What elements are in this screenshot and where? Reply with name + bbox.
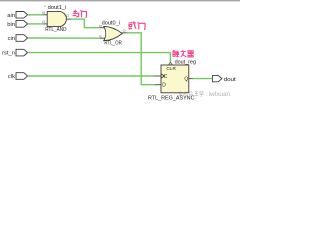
pin stub OR I1 [100, 37, 106, 39]
wire cin to OR I1 [28, 37, 100, 39]
wire rst_n to FF CLR [28, 53, 171, 63]
output port dout [213, 75, 237, 82]
svg-text:RTL_AND: RTL_AND [45, 27, 66, 33]
svg-text:D: D [162, 83, 166, 89]
svg-text:I1: I1 [42, 20, 45, 24]
pin stub FF D [155, 84, 161, 86]
pin stub OR I0 [100, 27, 105, 29]
svg-text:Q: Q [184, 76, 188, 82]
wire OR output to FF D [127, 33, 155, 85]
svg-text:I0: I0 [42, 11, 45, 15]
and-gate dout1_i RTL_AND [42, 5, 69, 33]
input port rst_n [2, 49, 27, 56]
pin marker FF CLR triangle [169, 62, 173, 65]
svg-text:RTL_OR: RTL_OR [104, 41, 121, 47]
svg-text:I0: I0 [99, 24, 102, 28]
svg-text:I1: I1 [99, 35, 102, 39]
svg-text:ain: ain [7, 13, 15, 19]
annotation OR gate (Chinese: huo men) [129, 22, 145, 30]
svg-text:rst_n: rst_n [2, 51, 15, 57]
wire FF Q to dout [193, 78, 213, 80]
top border shading [0, 0, 240, 2]
svg-text:O: O [123, 29, 126, 33]
svg-text:dout_reg: dout_reg [175, 60, 197, 66]
pin stub AND O [66, 18, 71, 20]
svg-text:dout0_i: dout0_i [102, 21, 120, 27]
svg-text:clk: clk [8, 74, 15, 80]
svg-text:: iwlxuan: : iwlxuan [205, 91, 230, 98]
pin stub OR O [122, 32, 127, 34]
svg-text:bin: bin [7, 22, 15, 28]
wire AND output to OR I0 [71, 19, 100, 28]
wire ain to AND I0 [28, 14, 44, 16]
flip-flop dout_reg RTL_REG_ASYNC [148, 60, 196, 102]
svg-text:CLR: CLR [166, 66, 176, 72]
annotation AND gate (Chinese: yu men) [73, 10, 87, 17]
svg-text:C: C [164, 74, 168, 80]
input port ain [7, 12, 27, 19]
svg-text:RTL_REG_ASYNC: RTL_REG_ASYNC [148, 95, 195, 101]
annotation flip-flop (Chinese: chu fa qi) [173, 50, 194, 57]
watermark (WeChat account, gray) [179, 91, 231, 98]
input port bin [7, 21, 27, 28]
input port cin [8, 35, 28, 42]
pin stub AND I0 [44, 14, 48, 16]
wire clk to FF C [28, 75, 155, 77]
wire bin to AND I1 [28, 23, 44, 25]
svg-text:dout: dout [224, 77, 237, 83]
or-gate dout0_i RTL_OR [99, 21, 126, 47]
pin stub AND I1 [44, 23, 48, 25]
pin stub FF Q [189, 78, 193, 80]
input port clk [8, 73, 28, 80]
svg-text:O: O [66, 14, 69, 18]
svg-text:dout1_i: dout1_i [48, 5, 67, 11]
pin stub FF C [154, 75, 161, 77]
svg-text:cin: cin [8, 36, 15, 42]
